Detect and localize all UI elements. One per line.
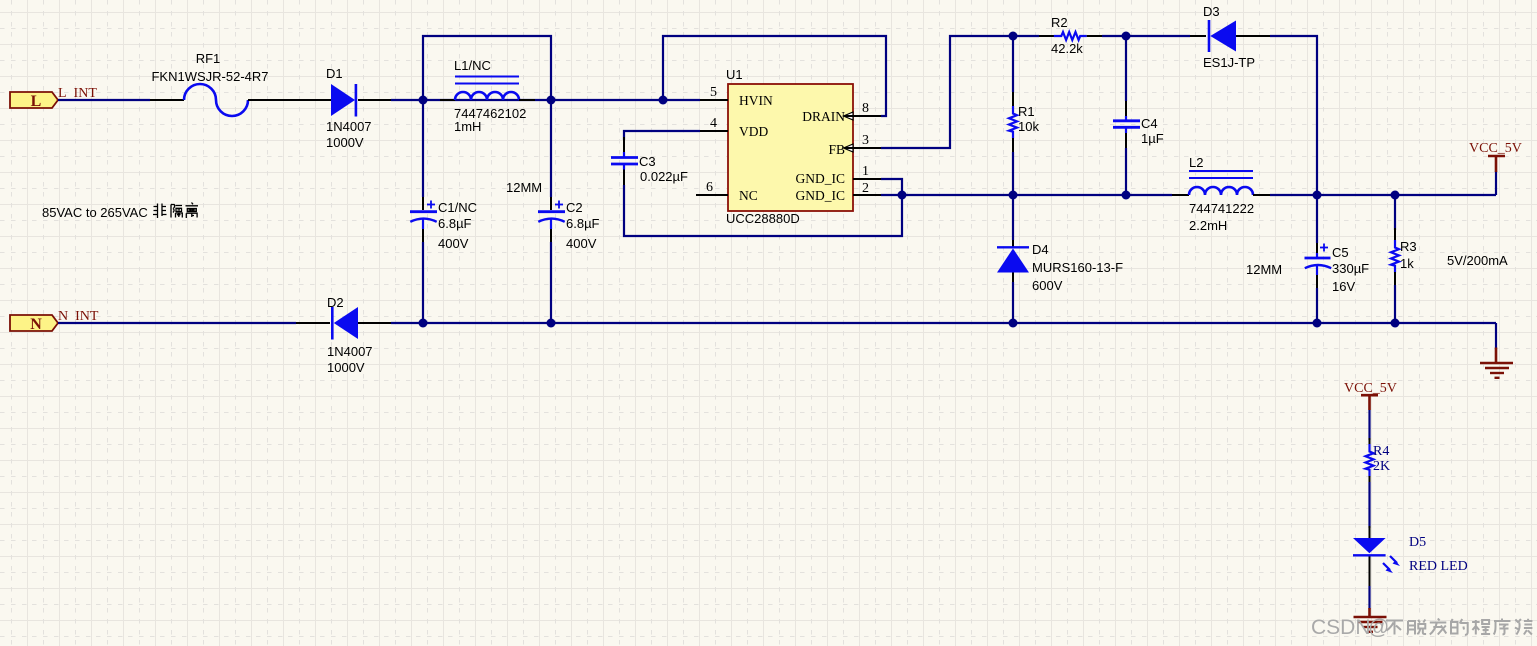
svg-text:GND_IC: GND_IC [796,188,846,203]
junction dot [659,96,668,105]
svg-text:42.2k: 42.2k [1051,41,1083,56]
svg-text:R4: R4 [1373,444,1389,459]
svg-text:2K: 2K [1373,459,1390,474]
diode D2 1N4007 [327,295,373,375]
svg-text:400V: 400V [566,236,597,251]
ground led branch [1354,608,1387,632]
wire D3 left lead [1190,35,1206,37]
text fei ge li glyphs [153,203,198,219]
ground right [1480,348,1513,378]
junction dot [1313,191,1322,200]
inductor L1 [440,58,535,134]
pin 4 VDD [700,116,728,131]
svg-text:FB: FB [828,142,845,157]
svg-text:6.8µF: 6.8µF [566,216,600,231]
wire vcc to R4 [1368,410,1370,440]
wire top net R2 to D3 [1102,35,1190,37]
wire N net run [391,322,1496,324]
svg-text:2.2mH: 2.2mH [1189,218,1227,233]
svg-text:HVIN: HVIN [739,93,773,108]
svg-text:5V/200mA: 5V/200mA [1447,253,1508,268]
capacitor C3 [611,137,688,185]
svg-text:85VAC to 265VAC: 85VAC to 265VAC [42,205,151,220]
wire C1 branch lower [422,242,424,323]
junction dot [1009,32,1018,41]
resistor R4 2K [1366,438,1391,484]
power VCC_5V right [1469,141,1522,195]
wire fuse left lead [150,99,184,101]
svg-text:VCC_5V: VCC_5V [1469,141,1522,156]
svg-text:D1: D1 [326,66,343,81]
svg-text:2: 2 [862,181,869,196]
wire C2 branch lower [550,242,552,323]
svg-text:12MM: 12MM [506,180,542,195]
svg-text:8: 8 [862,101,869,116]
wire D1 right lead [358,99,391,101]
wire D2 right lead [358,322,391,324]
junction dot [419,319,428,328]
watermark glyphs [1386,619,1532,635]
junction dot [547,96,556,105]
svg-text:1k: 1k [1400,256,1414,271]
junction dot [419,96,428,105]
svg-text:12MM: 12MM [1246,262,1282,277]
wire VCC run [1270,194,1496,196]
wire bypass bracket over L1 [423,36,551,100]
svg-text:GND_IC: GND_IC [796,171,846,186]
pin 1 GND_IC [853,164,881,179]
svg-text:U1: U1 [726,67,743,82]
svg-text:600V: 600V [1032,278,1063,293]
svg-text:1N4007: 1N4007 [327,344,373,359]
svg-text:6: 6 [706,180,713,195]
wire FB net [881,36,1039,148]
svg-text:NC: NC [739,188,758,203]
junction dot [1009,319,1018,328]
pin 3 FB [844,133,882,152]
svg-text:N INT: N INT [58,309,99,324]
port N [10,315,58,333]
svg-text:744741222: 744741222 [1189,201,1254,216]
svg-text:C4: C4 [1141,116,1158,131]
svg-text:1N4007: 1N4007 [326,119,372,134]
pin 5 HVIN [700,85,728,100]
svg-text:L1/NC: L1/NC [454,58,491,73]
capacitor C5 330uF [1305,195,1370,323]
svg-text:1000V: 1000V [326,135,364,150]
svg-text:D2: D2 [327,295,344,310]
resistor R1 10k [1009,36,1039,195]
svg-text:5: 5 [710,85,717,100]
svg-text:C2: C2 [566,200,583,215]
wire VDD net [624,131,700,140]
wire pin1 jog [881,179,902,195]
svg-text:D4: D4 [1032,242,1049,257]
svg-text:1000V: 1000V [327,360,365,375]
svg-text:DRAIN: DRAIN [802,109,845,124]
junction dot [547,319,556,328]
wire C2 branch upper [550,100,552,197]
wire D2 left lead [296,322,330,324]
capacitor C2 [538,197,600,251]
power VCC_5V led branch [1344,381,1397,410]
svg-text:400V: 400V [438,236,469,251]
pin 2 GND_IC [853,181,881,196]
svg-text:L: L [31,93,42,110]
diode D1 1N4007 [326,66,372,150]
svg-text:UCC28880D: UCC28880D [726,211,800,226]
diode D3 ES1J-TP [1203,4,1255,70]
junction dot [1009,191,1018,200]
inductor L2 [1172,155,1270,233]
wire C1 branch upper [422,100,424,197]
wire to ground right [1495,323,1497,348]
wire D5 to ground [1368,586,1370,609]
fuse RF1 [151,51,268,116]
svg-text:1mH: 1mH [454,119,481,134]
pin 6 NC [696,180,728,195]
svg-text:CSDN: CSDN [1311,616,1371,639]
svg-text:R3: R3 [1400,239,1417,254]
svg-text:16V: 16V [1332,279,1355,294]
led D5 RED LED [1353,526,1468,586]
wire fuse right lead [248,99,331,101]
svg-text:VDD: VDD [739,124,768,139]
port L [10,92,58,110]
wire DRAIN net bracket [663,36,886,116]
svg-text:MURS160-13-F: MURS160-13-F [1032,260,1123,275]
svg-text:RED LED: RED LED [1409,559,1468,574]
svg-text:RF1: RF1 [196,51,221,66]
wire L net: D1 to HVIN [391,99,700,101]
wire D3 right lead [1236,35,1270,37]
svg-text:4: 4 [710,116,717,131]
diode D4 MURS160 [997,195,1123,323]
ic U1 UCC28880D [726,67,853,226]
svg-text:3: 3 [862,133,869,148]
svg-text:1µF: 1µF [1141,131,1164,146]
svg-text:R2: R2 [1051,15,1068,30]
junction dot [1391,191,1400,200]
svg-text:0.022µF: 0.022µF [640,169,688,184]
wire GND_IC run [881,194,1172,196]
wire VDD net lower to GND [624,185,902,236]
svg-text:C1/NC: C1/NC [438,200,477,215]
svg-text:C3: C3 [639,154,656,169]
svg-text:D5: D5 [1409,535,1426,550]
svg-text:6.8µF: 6.8µF [438,216,472,231]
junction dot [1122,191,1131,200]
svg-text:@: @ [1368,616,1389,639]
svg-text:ES1J-TP: ES1J-TP [1203,55,1255,70]
resistor R3 1k [1391,195,1417,323]
wire L net: port to fuse [58,99,150,101]
svg-text:10k: 10k [1018,119,1039,134]
svg-text:L2: L2 [1189,155,1203,170]
svg-text:1: 1 [862,164,869,179]
svg-text:C5: C5 [1332,245,1349,260]
svg-text:L INT: L INT [58,86,97,101]
svg-text:R1: R1 [1018,104,1035,119]
svg-text:VCC_5V: VCC_5V [1344,381,1397,396]
capacitor C4 1uF [1113,36,1164,195]
resistor R2 42.2k [1039,15,1102,56]
svg-text:FKN1WSJR-52-4R7: FKN1WSJR-52-4R7 [151,69,268,84]
wire N net left [58,322,296,324]
svg-text:D3: D3 [1203,4,1220,19]
capacitor C1/NC [410,197,477,251]
svg-text:330µF: 330µF [1332,261,1369,276]
junction dot [1122,32,1131,41]
pin 8 DRAIN [844,101,882,120]
wire D3 to VCC node [1270,36,1317,195]
junction dot [898,191,907,200]
junction dot [1313,319,1322,328]
wire R4 to D5 [1368,482,1370,528]
svg-text:N: N [30,316,42,333]
junction dot [1391,319,1400,328]
